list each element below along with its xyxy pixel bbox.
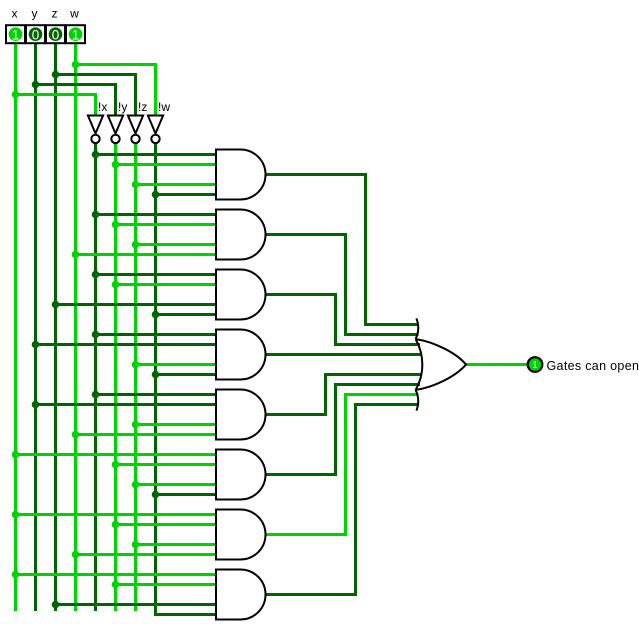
junction at (155,194) bbox=[152, 191, 160, 199]
junction at (35,344) bbox=[32, 341, 40, 349]
svg-text:!w: !w bbox=[158, 100, 170, 114]
junction at (135,364) bbox=[132, 361, 140, 369]
wire: x to NOT !x input bbox=[16, 95, 96, 117]
AND gate U8 (4-input) bbox=[216, 570, 266, 620]
svg-text:!y: !y bbox=[118, 100, 127, 114]
wire: AND8 input B from !y bbox=[116, 583, 216, 586]
AND gate U4 (4-input) bbox=[216, 330, 266, 380]
junction at (15,94) bbox=[12, 91, 20, 99]
wire: AND4 input A from !x bbox=[96, 333, 216, 336]
junction at (75,554) bbox=[72, 551, 80, 559]
junction at (15,574) bbox=[12, 571, 20, 579]
wire: AND1 input B from !y bbox=[116, 163, 216, 166]
junction at (135,184) bbox=[132, 181, 140, 189]
wire: AND3 input A from !x bbox=[96, 273, 216, 276]
svg-text:!x: !x bbox=[98, 100, 107, 114]
wire: AND5 input A from !x bbox=[96, 393, 216, 396]
junction at (15,454) bbox=[12, 451, 20, 459]
junction at (115,584) bbox=[112, 581, 120, 589]
junction at (115,224) bbox=[112, 221, 120, 229]
junction at (115,464) bbox=[112, 461, 120, 469]
AND gate U2 (4-input) bbox=[216, 210, 266, 260]
wire: AND7 output to OR input 7 bbox=[264, 395, 419, 535]
svg-text:Gates can open: Gates can open bbox=[547, 359, 639, 373]
svg-text:z: z bbox=[52, 7, 58, 21]
svg-text:w: w bbox=[69, 7, 79, 21]
input pin w bbox=[66, 25, 85, 43]
wire: AND4 output to OR input 4 bbox=[264, 353, 422, 356]
AND gate U6 (4-input) bbox=[216, 450, 266, 500]
junction at (55,74) bbox=[52, 71, 60, 79]
junction at (155,494) bbox=[152, 491, 160, 499]
input pin y bbox=[26, 25, 45, 43]
junction at (115,524) bbox=[112, 521, 120, 529]
NOT gate !y (inverter, facing down) bbox=[108, 116, 123, 144]
NOT gate !z (inverter, facing down) bbox=[128, 116, 143, 144]
junction at (75,254) bbox=[72, 251, 80, 259]
svg-text:1: 1 bbox=[72, 27, 80, 42]
junction at (55,604) bbox=[52, 601, 60, 609]
input pin x bbox=[6, 25, 25, 43]
svg-text:0: 0 bbox=[32, 27, 40, 42]
svg-text:!z: !z bbox=[138, 100, 147, 114]
wire: AND3 output to OR input 3 bbox=[264, 295, 420, 345]
wire: !x column (x=95) bbox=[94, 144, 97, 611]
wire: !w column (x=155) with elbow to AND8 input D bbox=[156, 144, 216, 615]
wire: AND3 input D from !w bbox=[156, 313, 216, 316]
junction at (55,304) bbox=[52, 301, 60, 309]
junction at (115,284) bbox=[112, 281, 120, 289]
junction at (135,544) bbox=[132, 541, 140, 549]
wire: AND4 input C from !z bbox=[136, 363, 216, 366]
junction at (115,164) bbox=[112, 161, 120, 169]
output pin "Gates can open" bbox=[528, 357, 543, 372]
svg-text:1: 1 bbox=[12, 27, 20, 42]
wire: AND1 input D from !w bbox=[156, 193, 216, 196]
wire: AND1 input A from !x bbox=[96, 153, 216, 156]
NOT gate !x (inverter, facing down) bbox=[88, 116, 103, 144]
junction at (155,314) bbox=[152, 311, 160, 319]
junction at (135,244) bbox=[132, 241, 140, 249]
wire: AND8 input C from z bbox=[56, 603, 216, 606]
wire: AND6 input D from !w bbox=[156, 493, 216, 496]
wire: AND6 input C from !z bbox=[136, 483, 216, 486]
wire: y to NOT !y input bbox=[36, 85, 116, 117]
wire: OR output to pin 'Gates can open' bbox=[466, 363, 528, 366]
junction at (95,334) bbox=[92, 331, 100, 339]
wire: w column (x=75) bbox=[74, 44, 77, 611]
junction at (95,394) bbox=[92, 391, 100, 399]
AND gate U1 (4-input) bbox=[216, 150, 266, 200]
svg-text:0: 0 bbox=[52, 27, 60, 42]
wire: AND2 output to OR input 2 bbox=[264, 235, 419, 335]
wire: AND3 input B from !y bbox=[116, 283, 216, 286]
wire: AND2 input C from !z bbox=[136, 243, 216, 246]
NOT gate !w (inverter, facing down) bbox=[148, 116, 163, 144]
wire: AND6 input A from x bbox=[16, 453, 216, 456]
wire: AND6 output to OR input 6 bbox=[264, 385, 420, 475]
wire: AND7 input A from x bbox=[16, 513, 216, 516]
AND gate U7 (4-input) bbox=[216, 510, 266, 560]
wire: AND5 input C from !z bbox=[136, 423, 216, 426]
junction at (75,64) bbox=[72, 61, 80, 69]
wire: AND7 input D from w bbox=[76, 553, 216, 556]
svg-text:x: x bbox=[12, 7, 18, 21]
wire: y column (x=35) bbox=[34, 44, 37, 611]
wire: !y column (x=115) bbox=[114, 144, 117, 611]
AND gate U3 (4-input) bbox=[216, 270, 266, 320]
junction at (35,84) bbox=[32, 81, 40, 89]
wire: AND7 input B from !y bbox=[116, 523, 216, 526]
wire: x column (x=15) bbox=[14, 44, 17, 611]
junction at (155,374) bbox=[152, 371, 160, 379]
svg-text:1: 1 bbox=[532, 360, 538, 371]
junction at (95,274) bbox=[92, 271, 100, 279]
wire: AND8 input A from x bbox=[16, 573, 216, 576]
wire: AND7 input C from !z bbox=[136, 543, 216, 546]
wire: AND3 input C from z bbox=[56, 303, 216, 306]
wire: z to NOT !z input bbox=[56, 75, 136, 117]
junction at (135,484) bbox=[132, 481, 140, 489]
junction at (95,214) bbox=[92, 211, 100, 219]
junction at (15,514) bbox=[12, 511, 20, 519]
junction at (95,154) bbox=[92, 151, 100, 159]
wire: AND5 output to OR input 5 bbox=[264, 375, 422, 415]
wire: AND8 output to OR input 8 bbox=[264, 405, 418, 595]
wire: AND2 input D from w bbox=[76, 253, 216, 256]
junction at (75,434) bbox=[72, 431, 80, 439]
svg-text:y: y bbox=[32, 7, 38, 21]
wire: AND2 input B from !y bbox=[116, 223, 216, 226]
wire: AND5 input D from w bbox=[76, 433, 216, 436]
wire: AND4 input B from y bbox=[36, 343, 216, 346]
wire: AND6 input B from !y bbox=[116, 463, 216, 466]
wire: w to NOT !w input bbox=[76, 65, 156, 117]
wire: AND4 input D from !w bbox=[156, 373, 216, 376]
wire: !z column (x=135) bbox=[134, 144, 137, 611]
junction at (135,424) bbox=[132, 421, 140, 429]
input pin z bbox=[46, 25, 65, 43]
wire: z column (x=55) bbox=[54, 44, 57, 611]
wire: AND1 output to OR input 1 bbox=[264, 175, 418, 325]
wire: AND5 input B from y bbox=[36, 403, 216, 406]
OR gate U9 (8-input) bbox=[416, 318, 466, 410]
wire: AND1 input C from !z bbox=[136, 183, 216, 186]
junction at (35,404) bbox=[32, 401, 40, 409]
AND gate U5 (4-input) bbox=[216, 390, 266, 440]
wire: AND2 input A from !x bbox=[96, 213, 216, 216]
